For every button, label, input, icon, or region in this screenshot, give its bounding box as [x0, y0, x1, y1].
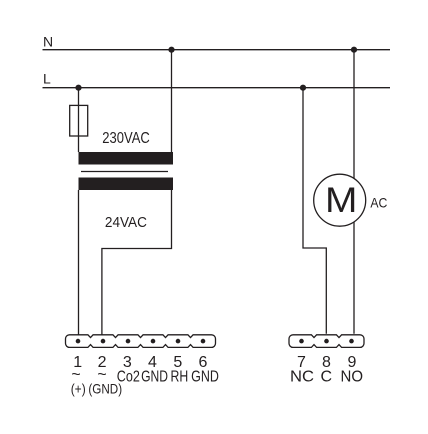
- svg-text:(GND): (GND): [88, 380, 122, 396]
- svg-text:L: L: [43, 70, 51, 86]
- svg-text:24VAC: 24VAC: [105, 214, 147, 231]
- svg-text:N: N: [43, 33, 53, 49]
- svg-text:GND: GND: [191, 369, 219, 386]
- svg-text:NO: NO: [341, 369, 364, 386]
- svg-text:AC: AC: [370, 195, 387, 211]
- svg-text:RH: RH: [171, 369, 189, 386]
- svg-text:M: M: [325, 181, 357, 220]
- svg-text:GND: GND: [141, 369, 168, 386]
- svg-text:C: C: [321, 369, 333, 386]
- svg-text:NC: NC: [290, 369, 314, 386]
- svg-text:230VAC: 230VAC: [102, 130, 150, 147]
- svg-text:(+): (+): [71, 380, 86, 396]
